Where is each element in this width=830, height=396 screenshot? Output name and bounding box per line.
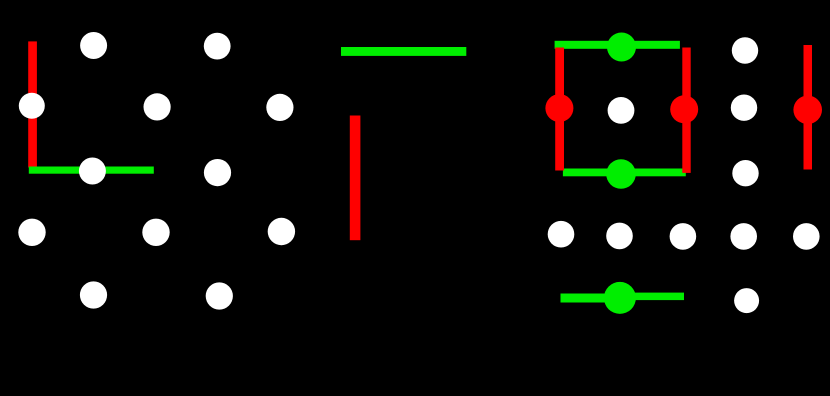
node: red syndrome dot far right <box>793 96 822 125</box>
node: white qubit dot center of square <box>608 97 635 124</box>
wire: red vertical segment middle <box>350 116 361 241</box>
wire: bottom right green segment left half <box>561 294 621 303</box>
node: white qubit dot left lattice row4 col0 <box>18 219 45 246</box>
node: white qubit dot left lattice row4 col2 <box>142 219 169 246</box>
node: white qubit dot left lattice row2 col4 <box>266 94 293 121</box>
node: green syndrome dot bottom right row <box>604 282 636 314</box>
node: red syndrome dot right of square <box>670 95 698 123</box>
node: white qubit dot left lattice row3 col3 <box>204 159 231 186</box>
node: white qubit dot bottom row 5 <box>793 223 820 250</box>
node: white qubit dot bottom row 1 <box>548 221 575 248</box>
node: white qubit dot right column top <box>732 37 758 63</box>
wire: square loop bottom green edge <box>563 169 686 177</box>
node: white qubit dot right of bottom green segment <box>734 288 759 313</box>
node: white qubit dot left lattice row3 col1 <box>79 158 106 185</box>
wire: red vertical error segment left lattice <box>28 41 37 167</box>
node: white qubit dot left lattice row2 col0 <box>19 93 45 119</box>
node: green syndrome dot top of square <box>607 33 636 62</box>
node: white qubit dot left lattice row1 col1 <box>80 32 107 59</box>
node: white qubit dot bottom row 3 <box>670 223 697 250</box>
node: red syndrome dot left of square <box>545 94 573 122</box>
node: white qubit dot left lattice row1 col3 <box>204 33 231 60</box>
node: white qubit dot left lattice row4 col4 <box>268 218 295 245</box>
node: white qubit dot right column middle <box>731 95 757 121</box>
wire: green horizontal error segment left lattice <box>29 167 154 174</box>
node: green syndrome dot bottom of square <box>606 159 636 189</box>
wire: square loop top green edge <box>555 41 680 49</box>
wire: far right red vertical segment <box>804 45 813 170</box>
wire: bottom right green segment right half <box>619 293 684 301</box>
node: white qubit dot right column bottom <box>732 160 758 186</box>
node: white qubit dot left lattice row5 col1 <box>80 281 107 308</box>
node: white qubit dot left lattice row5 col3 <box>206 282 233 309</box>
wire: square loop left red edge <box>555 48 564 171</box>
wire: green horizontal segment middle top <box>341 47 466 56</box>
node: white qubit dot left lattice row2 col2 <box>144 93 171 120</box>
node: white qubit dot bottom row 2 <box>606 223 633 250</box>
node: white qubit dot bottom row 4 <box>730 223 757 250</box>
wire: square loop right red edge <box>682 48 690 173</box>
